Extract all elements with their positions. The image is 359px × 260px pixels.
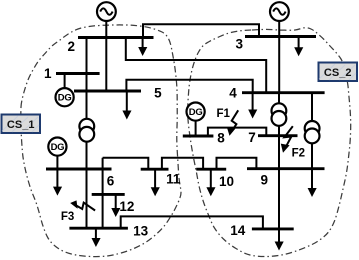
svg-text:CS_1: CS_1 — [7, 119, 35, 131]
wire generator G2 stem / line 3-4 — [278, 21, 280, 93]
bus 6 — [46, 168, 112, 171]
area boundary CS_2 (right dash-dot region) — [188, 28, 351, 257]
svg-text:DG: DG — [51, 142, 65, 153]
svg-text:CS_2: CS_2 — [324, 67, 352, 79]
bus 10 — [196, 168, 226, 171]
distributed generator DG1 at bus 1 — [56, 88, 74, 106]
svg-text:5: 5 — [154, 86, 162, 101]
svg-text:12: 12 — [119, 199, 134, 214]
wire line 4-5 — [126, 80, 252, 93]
distributed generator DG3 at bus 6 — [48, 138, 66, 156]
wire generator G1 stem / line 2-5 — [105, 21, 107, 91]
svg-text:6: 6 — [107, 174, 115, 189]
svg-text:3: 3 — [235, 37, 243, 52]
distributed generator DG2 at bus 8 — [187, 103, 205, 121]
bus 12 — [92, 193, 125, 196]
wire line 2-3 — [143, 24, 259, 37]
load arrow bus 9 — [308, 170, 317, 198]
bus 3 — [245, 35, 316, 38]
svg-text:F2: F2 — [292, 148, 305, 160]
generator G1 at bus 2 — [97, 2, 116, 21]
load arrow bus 14 — [275, 230, 284, 251]
wire line 5-6 via transformer T3 lower — [86, 140, 88, 169]
node CS_2 control area tag — [319, 63, 358, 82]
wire line 5-6 via transformer T3 upper — [86, 91, 88, 120]
node CS_1 control area tag — [2, 115, 41, 134]
wire line 9-10 rail — [217, 158, 257, 169]
svg-text:10: 10 — [219, 174, 234, 189]
fault F2 lightning arrow on line 7-9 — [281, 126, 293, 153]
svg-text:11: 11 — [166, 172, 181, 187]
load arrow bus 6 — [53, 170, 62, 196]
svg-text:F1: F1 — [216, 108, 230, 120]
svg-text:14: 14 — [230, 223, 246, 238]
wire line 6-13 — [86, 169, 88, 228]
bus 13 — [69, 227, 128, 230]
load arrow bus 12 — [111, 195, 120, 217]
bus 11 — [141, 168, 169, 171]
bus 2 — [78, 36, 154, 39]
wire line 2-4 — [126, 38, 266, 93]
load arrow bus 2 — [138, 39, 147, 57]
wire DG3 stem to bus 6 — [56, 156, 58, 169]
fault F3 lightning arrow on line 6-13 — [70, 200, 95, 210]
wire DG2 stem to bus 8 — [195, 121, 197, 136]
wire line 6-12 / line 12-13 — [102, 158, 104, 228]
generator G2 at bus 3 — [270, 2, 289, 21]
wire line 6-11 rail — [103, 158, 149, 169]
svg-text:F3: F3 — [61, 211, 74, 223]
transformer T2 on line 4-9 — [305, 121, 320, 143]
wire line 4-9 via transformer T2 lower — [311, 142, 313, 169]
load arrow bus 4 — [248, 94, 257, 119]
bus 9 — [247, 167, 325, 170]
load arrow bus 10 — [206, 170, 215, 196]
wire line 10-11 rail — [162, 158, 203, 169]
wire line 13-14 — [121, 216, 263, 229]
svg-text:DG: DG — [189, 107, 203, 118]
wire line 4-7 via transformer T1 lower — [278, 125, 280, 136]
load arrow bus 13 — [92, 229, 101, 247]
bus 5 — [74, 90, 141, 93]
svg-text:9: 9 — [261, 173, 269, 188]
svg-text:13: 13 — [133, 223, 149, 238]
wire line 4-9 via transformer T2 upper — [311, 93, 313, 123]
area boundary CS_1 (left dash-dot region) — [21, 25, 181, 257]
transformer T1 on line 4-7 — [272, 103, 287, 126]
load arrow bus 5 — [122, 92, 131, 120]
bus 4 — [242, 91, 325, 94]
bus 7 — [258, 134, 298, 137]
wire line 7-8 bridge — [208, 128, 266, 136]
svg-text:8: 8 — [217, 131, 225, 146]
svg-text:4: 4 — [229, 86, 237, 101]
load arrow bus 3 — [294, 38, 303, 57]
wire DG1 stem to bus 1 — [64, 74, 66, 89]
fault F1 lightning arrow on line 7-8 — [227, 110, 238, 136]
bus 8 — [183, 135, 214, 138]
wire line 1-2 / line 1-5 — [86, 38, 88, 92]
svg-text:7: 7 — [248, 130, 256, 145]
bus 14 — [252, 227, 294, 230]
svg-text:2: 2 — [67, 39, 75, 54]
load arrow bus 11 — [151, 170, 160, 196]
transformer T3 on line 5-6 — [79, 119, 94, 142]
svg-text:1: 1 — [44, 66, 52, 81]
wire line 7-9 / line 9-14 — [278, 136, 280, 241]
svg-text:DG: DG — [58, 93, 72, 104]
wire line 4-7 via transformer T1 upper — [278, 93, 280, 105]
bus 1 — [56, 72, 100, 75]
